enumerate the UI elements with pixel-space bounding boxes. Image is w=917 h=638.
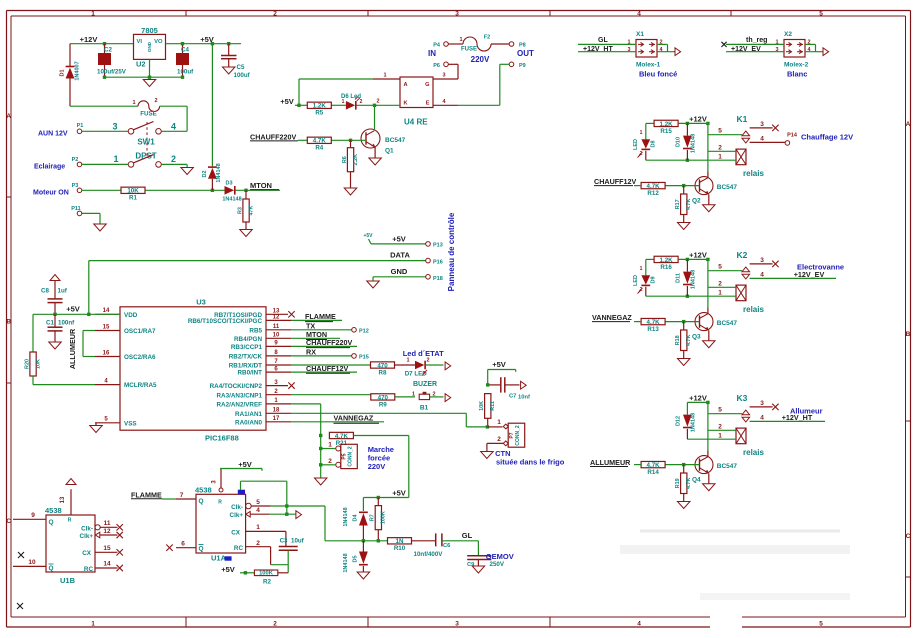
U1B pin11 Clk- <box>81 520 123 533</box>
svg-text:Eclairage: Eclairage <box>34 164 65 171</box>
svg-text:100uf: 100uf <box>177 69 194 76</box>
svg-text:située dans le frigo: située dans le frigo <box>496 458 565 467</box>
svg-text:3: 3 <box>760 257 764 264</box>
U1A pin2 RC <box>234 540 288 573</box>
svg-text:100nf: 100nf <box>58 320 75 327</box>
svg-text:R4: R4 <box>315 145 323 152</box>
svg-text:+5V: +5V <box>280 97 294 106</box>
ground SW1 pin2 <box>181 168 194 175</box>
svg-text:GL: GL <box>462 531 473 540</box>
svg-text:K3: K3 <box>737 393 748 403</box>
svg-text:470: 470 <box>378 394 389 401</box>
wire +12V rail <box>70 43 134 45</box>
svg-text:2: 2 <box>328 458 332 465</box>
svg-text:X1: X1 <box>636 31 644 38</box>
svg-text:P7: P7 <box>509 432 515 438</box>
svg-text:4538: 4538 <box>45 506 62 515</box>
pin P3 <box>72 183 121 193</box>
svg-text:4: 4 <box>637 620 641 627</box>
svg-text:Q: Q <box>49 565 54 572</box>
svg-text:2.2K: 2.2K <box>353 154 359 165</box>
svg-text:AUN 12V: AUN 12V <box>38 131 68 138</box>
resistor R21 4.7K <box>329 432 353 438</box>
svg-text:220V: 220V <box>368 462 386 471</box>
svg-text:1N4148: 1N4148 <box>216 163 222 182</box>
svg-text:D5: D5 <box>353 555 359 562</box>
node +5V <box>166 35 242 45</box>
svg-text:C6: C6 <box>443 543 451 549</box>
svg-text:P18: P18 <box>433 276 443 282</box>
svg-text:RB0/INT: RB0/INT <box>238 370 263 377</box>
arrow U1A pin4 <box>296 511 302 519</box>
svg-text:K: K <box>404 101 408 107</box>
pin P11 <box>71 206 100 224</box>
ground conn P5 <box>314 478 327 485</box>
svg-text:15: 15 <box>103 324 110 330</box>
svg-text:13: 13 <box>273 309 280 315</box>
svg-text:VDD: VDD <box>124 312 138 319</box>
pin P4 <box>433 42 463 49</box>
wire R21 to +5V <box>353 436 408 498</box>
svg-text:1.2K: 1.2K <box>313 103 327 110</box>
svg-text:G: G <box>425 82 429 88</box>
svg-text:4: 4 <box>760 135 764 142</box>
svg-text:2: 2 <box>171 154 176 164</box>
U3 left pins <box>95 308 157 427</box>
wire U4 pin4 <box>433 99 500 105</box>
svg-text:R8: R8 <box>379 369 387 376</box>
svg-text:3: 3 <box>760 121 764 128</box>
ground Q1 <box>369 158 382 165</box>
svg-text:D12: D12 <box>676 416 682 426</box>
svg-text:1: 1 <box>718 289 722 296</box>
ground U2 <box>143 80 156 87</box>
svg-text:FLAMME: FLAMME <box>131 490 162 499</box>
svg-text:R12: R12 <box>647 190 659 197</box>
svg-text:1: 1 <box>406 358 409 364</box>
svg-text:th_reg: th_reg <box>746 37 767 44</box>
svg-text:RA3/AN3/CNP1: RA3/AN3/CNP1 <box>217 392 263 399</box>
svg-text:5: 5 <box>819 620 823 627</box>
pin P8 <box>491 42 526 49</box>
svg-text:Chauffage 12V: Chauffage 12V <box>801 133 853 142</box>
svg-text:Blanc: Blanc <box>787 70 807 79</box>
transistor Q1 BC547 <box>361 129 406 155</box>
svg-text:VI: VI <box>137 39 143 45</box>
svg-text:1: 1 <box>383 73 386 79</box>
svg-text:Clk+: Clk+ <box>80 533 94 540</box>
label +5V CTN <box>488 360 516 385</box>
svg-text:K1: K1 <box>737 114 748 124</box>
svg-text:D11: D11 <box>676 273 682 283</box>
svg-text:1N4148: 1N4148 <box>343 553 349 572</box>
svg-text:1: 1 <box>256 524 260 531</box>
svg-text:47K: 47K <box>248 205 254 215</box>
resistor R3 47K <box>237 190 254 229</box>
svg-text:5: 5 <box>718 407 722 414</box>
svg-text:BUZER: BUZER <box>413 381 437 388</box>
svg-text:D1: D1 <box>60 69 66 76</box>
svg-text:MTON: MTON <box>250 181 272 190</box>
svg-text:250V: 250V <box>490 561 505 568</box>
svg-text:1: 1 <box>718 432 722 439</box>
svg-text:CHAUFF12V: CHAUFF12V <box>306 364 349 373</box>
arrow C7 <box>521 381 527 389</box>
resistor R8 470 <box>371 362 395 368</box>
svg-text:2: 2 <box>640 287 643 293</box>
wire Q1 emitter <box>374 147 376 158</box>
label +5V U4 <box>280 97 307 106</box>
svg-text:1N4148: 1N4148 <box>691 134 697 153</box>
svg-text:relais: relais <box>743 169 764 178</box>
svg-text:C5: C5 <box>237 64 245 71</box>
label CHAUFF220V <box>250 132 307 141</box>
svg-text:+5V: +5V <box>392 489 406 498</box>
svg-text:1: 1 <box>459 37 462 43</box>
diode D1 1N4007 <box>60 44 81 106</box>
svg-text:P1: P1 <box>77 123 84 129</box>
svg-text:A: A <box>6 113 11 120</box>
svg-text:4.7K: 4.7K <box>647 319 661 326</box>
svg-text:3: 3 <box>455 620 459 627</box>
capacitor C6 10nf/400V <box>412 533 479 558</box>
diode D2 1N4148 <box>202 163 222 190</box>
wire fuse to SW1 pin4 <box>160 106 188 131</box>
svg-text:RB2/TX/CK: RB2/TX/CK <box>229 354 263 361</box>
ground VSS <box>90 426 103 433</box>
svg-text:4.7K: 4.7K <box>647 462 661 469</box>
wire U1B pin10 <box>13 559 46 566</box>
ic U1B 4538 <box>45 506 95 585</box>
wire PSU ground rail <box>103 59 184 79</box>
svg-text:P9: P9 <box>519 63 526 69</box>
ground R3 <box>240 230 253 237</box>
svg-text:P14: P14 <box>787 133 798 139</box>
svg-text:R13: R13 <box>647 326 659 333</box>
svg-text:B: B <box>906 331 911 338</box>
svg-text:R6: R6 <box>342 156 348 163</box>
svg-text:R20: R20 <box>24 359 30 369</box>
svg-text:ALLUMEUR: ALLUMEUR <box>590 458 631 467</box>
connector X2 Molex-2 <box>721 31 828 79</box>
svg-text:2: 2 <box>273 620 277 627</box>
svg-text:14: 14 <box>103 561 111 568</box>
svg-text:OSC1/RA7: OSC1/RA7 <box>124 328 156 335</box>
svg-text:D4: D4 <box>353 514 359 522</box>
label VANNEGAZ K2 <box>592 313 632 322</box>
svg-text:10: 10 <box>273 333 280 339</box>
svg-text:OUT: OUT <box>517 49 534 58</box>
svg-text:B1: B1 <box>420 405 429 412</box>
svg-text:1N4148: 1N4148 <box>222 197 241 203</box>
wire GL row <box>325 539 388 542</box>
svg-text:R1: R1 <box>129 195 137 202</box>
connector P7 CONN_2 CTN <box>487 419 525 452</box>
svg-text:P3: P3 <box>72 183 79 189</box>
svg-text:4: 4 <box>760 271 764 278</box>
svg-text:CONN_2: CONN_2 <box>348 446 354 467</box>
svg-text:C7: C7 <box>509 394 516 400</box>
svg-text:P2: P2 <box>72 157 79 163</box>
svg-text:12: 12 <box>103 528 111 535</box>
wire VDD16 to Clk+ <box>241 481 289 516</box>
svg-text:D3: D3 <box>225 181 232 187</box>
svg-text:B: B <box>6 319 11 326</box>
U1A pin1 CX <box>231 524 286 536</box>
wire pin7 to R8 <box>291 364 371 366</box>
wire VSS ground <box>95 423 97 426</box>
svg-text:6: 6 <box>181 541 185 548</box>
pin P1 <box>77 123 129 134</box>
svg-text:R17: R17 <box>675 199 681 209</box>
resistor R5 1.2K <box>331 104 346 106</box>
wire pin1 down <box>291 404 322 478</box>
svg-text:1.2K: 1.2K <box>660 121 674 128</box>
U1A vdd16 highlight <box>238 490 245 495</box>
svg-text:1: 1 <box>113 154 118 164</box>
fuse F1 <box>70 79 160 118</box>
connector X1 Molex-1 <box>578 31 681 79</box>
svg-text:RC: RC <box>84 566 94 573</box>
svg-text:GL: GL <box>598 37 608 44</box>
wire R1 to D3 <box>146 189 225 192</box>
label ALLUMEUR K3 <box>590 458 631 467</box>
svg-text:+12V: +12V <box>689 115 707 124</box>
node MTON <box>236 181 281 192</box>
svg-text:Q: Q <box>49 519 54 526</box>
svg-text:R5: R5 <box>315 110 323 117</box>
svg-text:R7: R7 <box>370 514 376 521</box>
svg-text:R19: R19 <box>675 478 681 488</box>
wire U4 pin1 <box>297 73 400 108</box>
svg-text:Q3: Q3 <box>692 334 701 341</box>
svg-text:P12: P12 <box>359 329 369 335</box>
svg-text:VANNEGAZ: VANNEGAZ <box>334 414 374 423</box>
svg-text:BC547: BC547 <box>717 463 738 470</box>
arrow etat <box>445 362 451 370</box>
svg-text:1: 1 <box>640 266 643 272</box>
buzzer B1 <box>395 381 444 412</box>
svg-text:R9: R9 <box>379 401 387 408</box>
svg-text:+5V: +5V <box>221 565 235 574</box>
svg-text:P6: P6 <box>433 63 440 69</box>
svg-text:2: 2 <box>376 99 379 105</box>
svg-text:BC547: BC547 <box>717 184 738 191</box>
U1B pin14 RC <box>84 561 123 573</box>
relay K3 block <box>634 393 825 508</box>
label FLAMME U1A <box>131 490 196 499</box>
ground D5 <box>357 572 370 579</box>
svg-text:Q: Q <box>199 498 204 505</box>
wire +5V VDD <box>33 313 120 316</box>
svg-text:RC: RC <box>234 545 244 552</box>
pin P9 <box>500 62 526 105</box>
svg-text:Q: Q <box>199 546 204 553</box>
wire R11 to P7 <box>486 425 503 428</box>
svg-text:P13: P13 <box>433 243 443 249</box>
svg-text:4.7K: 4.7K <box>335 433 349 440</box>
svg-text:1: 1 <box>328 442 332 449</box>
led D7 Led d'ETAT <box>395 349 445 378</box>
wire pin2 to R9 <box>291 394 371 396</box>
svg-text:10K: 10K <box>479 401 485 411</box>
svg-text:P15: P15 <box>359 355 369 361</box>
svg-text:16: 16 <box>103 350 110 356</box>
svg-text:2: 2 <box>718 424 722 431</box>
svg-text:7805: 7805 <box>141 26 158 35</box>
svg-text:+5V: +5V <box>66 305 80 314</box>
svg-text:U3: U3 <box>196 298 206 307</box>
svg-text:4: 4 <box>760 414 764 421</box>
svg-text:RB1/RX/DT: RB1/RX/DT <box>229 363 262 370</box>
svg-text:Molex-2: Molex-2 <box>784 62 809 69</box>
svg-text:CHAUFF12V: CHAUFF12V <box>594 177 637 186</box>
mcu U3 PIC16F88 <box>120 298 266 443</box>
svg-text:U1A: U1A <box>211 554 227 563</box>
svg-text:P16: P16 <box>433 259 443 265</box>
svg-text:X2: X2 <box>784 31 792 38</box>
ic U1A 4538 <box>195 486 246 563</box>
svg-text:5: 5 <box>718 128 722 135</box>
resistor R6 2.2K <box>342 140 359 188</box>
svg-text:Panneau de contrôle: Panneau de contrôle <box>447 212 456 291</box>
svg-text:RX: RX <box>306 347 316 356</box>
opto-relay U4 RE <box>400 77 433 127</box>
svg-text:R: R <box>218 500 222 506</box>
power flag +5V P13 <box>363 233 373 244</box>
svg-text:10K: 10K <box>35 359 41 369</box>
svg-text:1N4148: 1N4148 <box>691 413 697 432</box>
svg-text:R: R <box>68 518 72 524</box>
svg-text:CX: CX <box>231 529 241 536</box>
svg-text:10: 10 <box>28 559 36 566</box>
capacitor C4 100uf <box>176 44 194 77</box>
svg-text:U1B: U1B <box>60 576 76 585</box>
capacitor C7 10nf <box>486 377 530 400</box>
wire SW1 pin2 to ground <box>161 164 187 167</box>
power arrow U1B pin13 <box>66 479 76 485</box>
svg-text:+5V: +5V <box>492 360 506 369</box>
svg-text:RA2/AN2/VREF: RA2/AN2/VREF <box>217 402 263 409</box>
relay K2 block <box>633 250 836 365</box>
svg-text:D9: D9 <box>651 276 657 283</box>
svg-text:7: 7 <box>180 492 184 499</box>
svg-text:P8: P8 <box>519 43 526 49</box>
svg-text:1: 1 <box>132 100 135 106</box>
svg-text:DATA: DATA <box>390 251 410 260</box>
svg-text:+12V_EV: +12V_EV <box>794 270 825 279</box>
svg-text:13: 13 <box>60 496 66 503</box>
resistor R1 10K <box>121 187 145 193</box>
svg-text:4.7K: 4.7K <box>686 477 692 488</box>
svg-text:Q1: Q1 <box>385 148 394 155</box>
svg-text:3: 3 <box>760 400 764 407</box>
svg-text:FUSE: FUSE <box>461 47 477 53</box>
x mark bottom left <box>17 603 23 609</box>
svg-text:FUSE: FUSE <box>140 111 157 118</box>
label ALLUMEUR U3 <box>68 328 95 369</box>
ground P11 <box>94 224 107 231</box>
svg-text:CONN_2: CONN_2 <box>515 425 521 446</box>
svg-text:+5V: +5V <box>238 460 252 469</box>
svg-text:GND: GND <box>147 41 152 52</box>
svg-text:R11: R11 <box>490 401 496 411</box>
U1A pin5 Clk- <box>231 499 325 511</box>
diode D4 1N4148 <box>343 498 368 541</box>
svg-text:10uf: 10uf <box>291 538 305 545</box>
U1A pin6 <box>166 541 196 551</box>
pin P16 DATA <box>89 251 443 266</box>
arrow buzzer <box>445 394 451 402</box>
ground R6 <box>344 188 357 195</box>
U1A vss highlight <box>225 556 232 560</box>
svg-text:CHAUFF220V: CHAUFF220V <box>250 132 297 141</box>
svg-text:PIC16F88: PIC16F88 <box>205 434 239 443</box>
svg-text:12: 12 <box>273 315 280 321</box>
svg-text:C: C <box>6 518 11 525</box>
svg-text:5: 5 <box>819 10 823 17</box>
svg-text:CHAUFF220V: CHAUFF220V <box>306 338 353 347</box>
svg-text:10nf: 10nf <box>518 395 530 401</box>
svg-text:2: 2 <box>154 98 157 104</box>
wire SW1 pin4 up <box>161 130 187 132</box>
svg-text:TX: TX <box>306 321 315 330</box>
svg-text:BC547: BC547 <box>717 320 738 327</box>
svg-text:1N4148: 1N4148 <box>343 507 349 526</box>
svg-text:P4: P4 <box>433 43 441 49</box>
svg-text:470: 470 <box>377 362 388 369</box>
svg-text:1: 1 <box>497 419 501 426</box>
ground P18 <box>367 281 380 288</box>
svg-text:1: 1 <box>91 10 95 17</box>
capacitor C8 1uf <box>41 275 68 315</box>
svg-text:5: 5 <box>718 264 722 271</box>
svg-text:Moteur ON: Moteur ON <box>33 190 69 197</box>
svg-text:14: 14 <box>103 308 110 314</box>
svg-text:+12V: +12V <box>689 394 707 403</box>
svg-text:U4 RE: U4 RE <box>404 118 428 127</box>
label CHAUFF220V U3 <box>291 338 357 348</box>
svg-text:100K: 100K <box>259 571 274 577</box>
svg-text:+12V: +12V <box>689 251 707 260</box>
wire +5V to D2 <box>211 44 213 167</box>
svg-text:RA0/AN0: RA0/AN0 <box>235 419 262 426</box>
resistor R9 470 <box>371 394 395 400</box>
ground C5 <box>222 67 235 74</box>
svg-text:2: 2 <box>718 281 722 288</box>
connector P5 CONN_2 marche forcee <box>319 442 357 469</box>
resistor R2 100K <box>240 570 288 586</box>
svg-text:RA1/AN1: RA1/AN1 <box>235 411 262 418</box>
svg-text:DPST: DPST <box>135 152 156 161</box>
svg-text:R16: R16 <box>660 264 672 271</box>
svg-text:Clk-: Clk- <box>81 525 93 532</box>
svg-text:D2: D2 <box>202 170 208 177</box>
label CHAUFF12V <box>594 177 637 186</box>
svg-text:Clk-: Clk- <box>231 504 243 511</box>
resistor R11 10K <box>479 394 496 427</box>
led D6 <box>341 94 363 110</box>
wire pin18 to CTN <box>291 413 487 427</box>
ground P7 <box>481 452 494 459</box>
svg-text:C1: C1 <box>46 320 54 327</box>
svg-text:E: E <box>426 101 430 107</box>
U1B pin15 CX <box>82 545 123 557</box>
svg-text:A: A <box>906 121 911 128</box>
svg-text:1N4007: 1N4007 <box>75 61 81 80</box>
svg-text:4: 4 <box>637 10 641 17</box>
fuse F2 <box>459 35 491 53</box>
